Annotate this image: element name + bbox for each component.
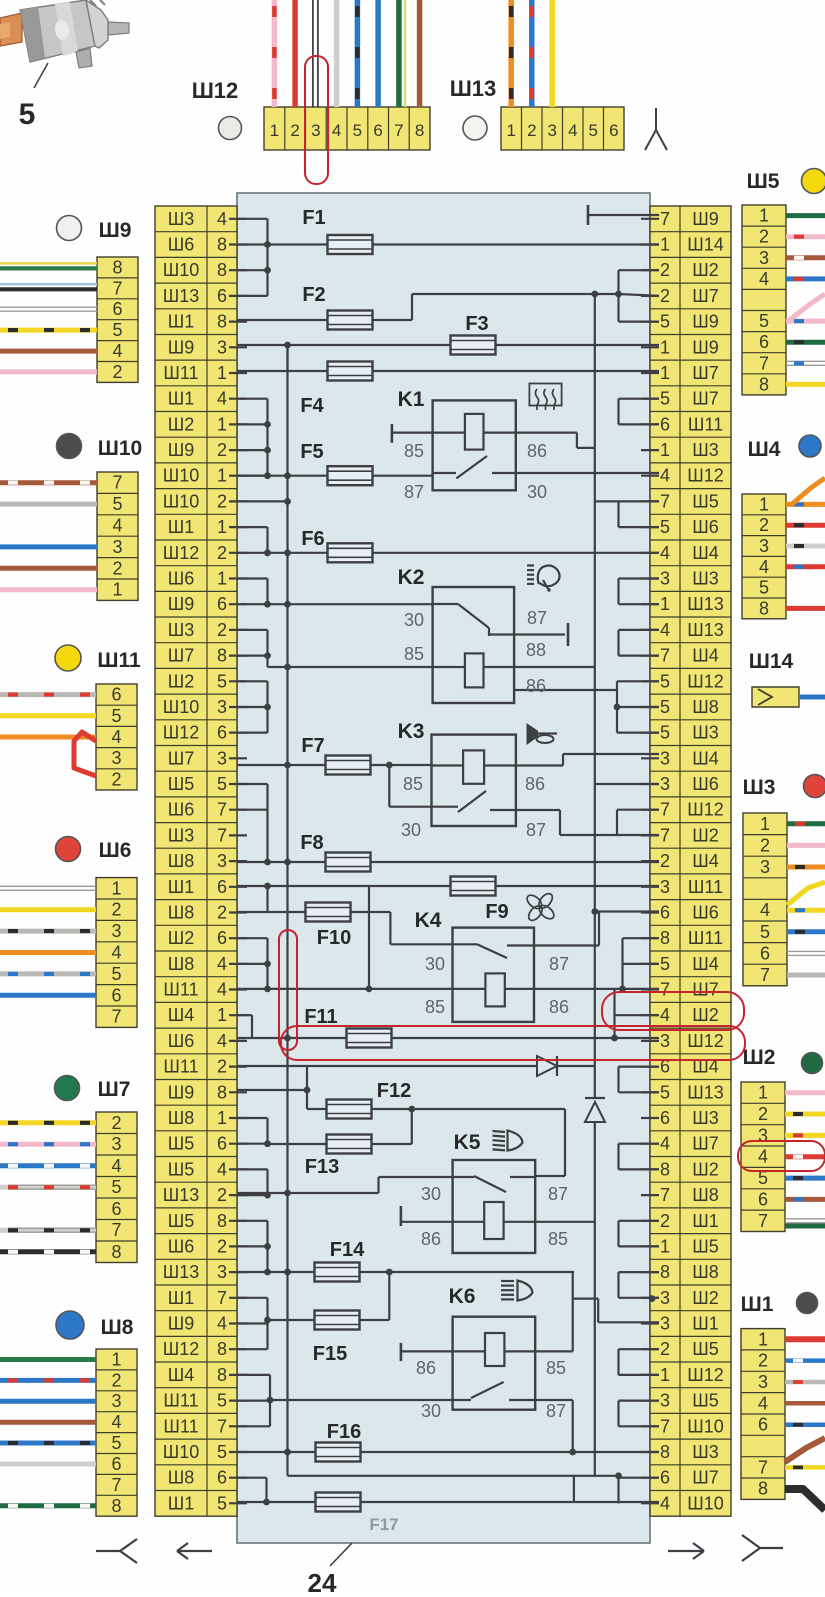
svg-text:Ш9: Ш9 xyxy=(168,440,195,460)
node: right rows 15-16 bracket xyxy=(619,579,660,605)
svg-text:6: 6 xyxy=(660,1468,670,1488)
wire Ш12 pin 3 (double) xyxy=(313,0,318,107)
node: right rows 19-21 bracket xyxy=(614,681,659,732)
svg-text:Ш6: Ш6 xyxy=(168,800,195,820)
node: rows 36-37 bracket feeding F13 xyxy=(237,1118,271,1147)
svg-text:Ш5: Ш5 xyxy=(692,1339,719,1359)
svg-text:7: 7 xyxy=(112,473,122,493)
svg-text:85: 85 xyxy=(403,774,423,794)
svg-text:Ш4: Ш4 xyxy=(168,1005,195,1025)
wire Ш5 pin 1 xyxy=(786,213,825,218)
svg-text:2: 2 xyxy=(660,260,670,280)
block pin ticks left edge xyxy=(229,219,247,1504)
svg-text:Ш8: Ш8 xyxy=(101,1316,134,1339)
wire Ш9 pin 5 xyxy=(0,328,97,333)
svg-text:F8: F8 xyxy=(300,832,323,854)
svg-text:3: 3 xyxy=(311,121,320,140)
svg-text:Ш6: Ш6 xyxy=(168,1031,195,1051)
wire: right row 23 line xyxy=(595,783,659,785)
svg-text:85: 85 xyxy=(548,1229,568,1249)
fuse F1 xyxy=(268,207,660,254)
svg-text:7: 7 xyxy=(660,1416,670,1436)
wire Ш5 pin 2 xyxy=(786,234,825,239)
wire Ш8 pin 4 xyxy=(0,1420,96,1425)
svg-text:30: 30 xyxy=(425,954,445,974)
svg-text:F9: F9 xyxy=(485,901,508,923)
svg-text:85: 85 xyxy=(404,644,424,664)
svg-text:Ш5: Ш5 xyxy=(168,1134,195,1154)
fuse F11 xyxy=(237,1006,659,1048)
svg-text:Ш14: Ш14 xyxy=(749,650,794,673)
wire Ш12 pin 8 xyxy=(417,0,423,107)
svg-text:Ш8: Ш8 xyxy=(168,903,195,923)
svg-text:Ш11: Ш11 xyxy=(688,877,723,897)
wire Ш7 pin 7 xyxy=(0,1228,96,1232)
connector Ш9 pin table xyxy=(97,257,138,382)
svg-text:K2: K2 xyxy=(398,566,425,589)
svg-text:1: 1 xyxy=(758,1329,768,1349)
svg-text:4: 4 xyxy=(111,727,121,747)
svg-text:3: 3 xyxy=(660,1314,670,1334)
svg-text:3: 3 xyxy=(111,1391,121,1411)
svg-text:4: 4 xyxy=(660,543,670,563)
svg-text:F11: F11 xyxy=(304,1006,337,1028)
svg-text:F6: F6 xyxy=(301,528,324,550)
svg-text:6: 6 xyxy=(111,985,121,1005)
svg-text:Ш13: Ш13 xyxy=(450,76,497,101)
svg-text:Ш10: Ш10 xyxy=(163,697,200,717)
svg-text:5: 5 xyxy=(660,1082,670,1102)
svg-text:F17: F17 xyxy=(369,1515,398,1534)
svg-text:1: 1 xyxy=(506,121,515,140)
svg-text:Ш12: Ш12 xyxy=(163,723,200,743)
svg-text:Ш6: Ш6 xyxy=(168,1236,195,1256)
svg-text:1: 1 xyxy=(270,121,279,140)
wire Ш7 pin 4 xyxy=(0,1163,96,1168)
wire Ш3 pin 5 xyxy=(787,929,825,934)
wire Ш5 pin 3 xyxy=(786,255,825,260)
wire Ш6 pin 2 xyxy=(0,907,96,912)
svg-text:Ш12: Ш12 xyxy=(687,466,724,486)
svg-text:Ш3: Ш3 xyxy=(692,1442,719,1462)
svg-text:Ш10: Ш10 xyxy=(163,260,200,280)
svg-text:5: 5 xyxy=(111,1433,121,1453)
fuse F17 xyxy=(237,1476,659,1534)
svg-text:2: 2 xyxy=(290,121,299,140)
red highlight: Ш12 pin 3 xyxy=(305,56,328,184)
svg-text:7: 7 xyxy=(660,209,670,229)
svg-text:4: 4 xyxy=(660,1005,670,1025)
svg-text:Ш7: Ш7 xyxy=(98,1078,131,1101)
fuse F13 xyxy=(268,1109,412,1178)
node: rows 38-39 bracket feeding K5-30 xyxy=(237,1169,288,1198)
svg-text:Ш3: Ш3 xyxy=(692,440,719,460)
svg-text:6: 6 xyxy=(760,943,770,963)
left pin table of block xyxy=(155,206,237,1516)
svg-text:F16: F16 xyxy=(327,1421,361,1443)
svg-text:3: 3 xyxy=(217,748,227,768)
svg-text:87: 87 xyxy=(404,482,424,502)
fork symbol bottom right xyxy=(742,1535,783,1561)
svg-text:K6: K6 xyxy=(449,1285,476,1308)
svg-text:Ш1: Ш1 xyxy=(168,1288,195,1308)
fuse F4 xyxy=(237,345,659,417)
svg-text:F12: F12 xyxy=(377,1080,411,1102)
fuse F10 xyxy=(237,886,390,949)
svg-text:Ш9: Ш9 xyxy=(168,1082,195,1102)
node: row 13 bracket feeding F6 xyxy=(237,527,271,556)
svg-text:4: 4 xyxy=(568,121,577,140)
wire Ш13 pin 2 xyxy=(529,0,535,107)
svg-text:24: 24 xyxy=(308,1568,337,1592)
svg-text:8: 8 xyxy=(759,598,769,618)
wire Ш2 green bottom xyxy=(785,1224,825,1229)
svg-text:Ш3: Ш3 xyxy=(692,1108,719,1128)
svg-text:Ш4: Ш4 xyxy=(748,438,781,461)
svg-text:3: 3 xyxy=(111,748,121,768)
svg-text:6: 6 xyxy=(660,1108,670,1128)
svg-text:87: 87 xyxy=(527,608,547,628)
svg-text:2: 2 xyxy=(112,362,122,382)
svg-text:F7: F7 xyxy=(301,735,324,757)
svg-text:3: 3 xyxy=(759,536,769,556)
wire: row 12 stub to bus xyxy=(237,498,291,505)
svg-text:4: 4 xyxy=(111,943,121,963)
svg-text:8: 8 xyxy=(217,1365,227,1385)
wire Ш8 pin 3 xyxy=(0,1399,96,1404)
wire Ш11 pin 6 xyxy=(0,692,96,697)
svg-text:8: 8 xyxy=(759,374,769,394)
node: right rows 50-51 bracket xyxy=(619,1478,660,1504)
svg-text:3: 3 xyxy=(758,1372,768,1392)
svg-text:Ш10: Ш10 xyxy=(687,1416,724,1436)
svg-text:4: 4 xyxy=(759,269,769,289)
svg-text:K5: K5 xyxy=(454,1131,481,1154)
wire Ш4 orange diagonal xyxy=(792,478,825,504)
svg-text:2: 2 xyxy=(759,227,769,247)
node: row 32 bracket to F11 xyxy=(237,1015,252,1038)
svg-text:86: 86 xyxy=(421,1229,441,1249)
svg-text:2: 2 xyxy=(660,286,670,306)
svg-text:K3: K3 xyxy=(398,720,425,743)
svg-text:Ш3: Ш3 xyxy=(168,209,195,229)
svg-text:3: 3 xyxy=(217,1262,227,1282)
wire Ш4 pin 1 xyxy=(786,502,825,507)
wire Ш3 pin 3 xyxy=(787,865,825,870)
wire Ш5 pin 6 xyxy=(786,340,825,345)
connector Ш9 label and socket xyxy=(57,216,132,243)
svg-text:6: 6 xyxy=(112,299,122,319)
svg-text:3: 3 xyxy=(217,697,227,717)
svg-text:4: 4 xyxy=(217,1159,227,1179)
svg-text:F4: F4 xyxy=(300,395,324,417)
svg-text:Ш4: Ш4 xyxy=(692,543,719,563)
svg-text:4: 4 xyxy=(660,620,670,640)
svg-text:2: 2 xyxy=(111,1113,121,1133)
wire Ш2 pin 1 xyxy=(785,1090,825,1095)
svg-text:2: 2 xyxy=(217,491,227,511)
svg-text:Ш8: Ш8 xyxy=(168,851,195,871)
node: rows 43-44 bracket left xyxy=(237,1298,271,1349)
node: rows 1-4 bracket feeding F1 xyxy=(237,219,271,296)
fuse F6 xyxy=(237,528,659,562)
wire Ш5 pin 7 xyxy=(786,361,825,365)
svg-text:Ш13: Ш13 xyxy=(163,1185,200,1205)
svg-text:6: 6 xyxy=(660,903,670,923)
svg-text:8: 8 xyxy=(660,928,670,948)
svg-text:7: 7 xyxy=(660,825,670,845)
connector Ш14 label xyxy=(749,650,794,673)
svg-text:2: 2 xyxy=(758,1351,768,1371)
svg-text:5: 5 xyxy=(588,121,597,140)
svg-text:4: 4 xyxy=(112,341,122,361)
svg-text:1: 1 xyxy=(660,440,670,460)
svg-text:Ш1: Ш1 xyxy=(168,312,195,332)
connector Ш8 label and socket xyxy=(56,1311,134,1339)
svg-text:4: 4 xyxy=(660,1493,670,1513)
svg-text:7: 7 xyxy=(660,980,670,1000)
svg-text:Ш13: Ш13 xyxy=(163,1262,200,1282)
connector Ш4 label and socket xyxy=(748,435,821,461)
svg-text:5: 5 xyxy=(19,98,36,131)
wire Ш1 pin 3 xyxy=(785,1380,825,1385)
svg-text:2: 2 xyxy=(217,1236,227,1256)
wire Ш1 brown diagonal xyxy=(785,1438,825,1462)
svg-text:Ш1: Ш1 xyxy=(741,1293,774,1316)
wire Ш4 pin 4 xyxy=(786,564,825,569)
svg-text:Ш5: Ш5 xyxy=(168,1211,195,1231)
svg-text:3: 3 xyxy=(660,569,670,589)
red highlight: F11 row to 3-Ш12 xyxy=(281,1026,745,1060)
svg-text:6: 6 xyxy=(217,286,227,306)
svg-text:7: 7 xyxy=(660,646,670,666)
svg-text:F1: F1 xyxy=(302,207,325,229)
connector Ш14 arrow terminal xyxy=(752,687,799,707)
svg-text:Ш9: Ш9 xyxy=(692,337,719,357)
svg-text:2: 2 xyxy=(217,1057,227,1077)
svg-text:6: 6 xyxy=(759,332,769,352)
wire Ш12 pin 2 xyxy=(292,0,298,107)
svg-text:Ш11: Ш11 xyxy=(688,928,723,948)
wire Ш1 black output xyxy=(785,1489,825,1510)
svg-text:1: 1 xyxy=(217,569,227,589)
svg-text:5: 5 xyxy=(759,578,769,598)
connector Ш1 label and socket xyxy=(741,1293,818,1317)
svg-text:2: 2 xyxy=(111,769,121,789)
svg-text:Ш12: Ш12 xyxy=(163,543,200,563)
svg-text:3: 3 xyxy=(660,1288,670,1308)
svg-text:5: 5 xyxy=(217,1442,227,1462)
svg-text:5: 5 xyxy=(660,312,670,332)
svg-text:2: 2 xyxy=(217,440,227,460)
svg-text:4: 4 xyxy=(660,1134,670,1154)
svg-text:1: 1 xyxy=(111,878,121,898)
svg-text:1: 1 xyxy=(760,814,770,834)
svg-text:7: 7 xyxy=(660,800,670,820)
svg-text:8: 8 xyxy=(660,1159,670,1179)
wire Ш1 pin 4 xyxy=(785,1401,825,1406)
svg-text:1: 1 xyxy=(217,363,227,383)
wire Ш3 pin 6 xyxy=(787,951,825,955)
svg-text:8: 8 xyxy=(217,646,227,666)
node: right rows 37-38 bracket xyxy=(619,1144,660,1170)
svg-text:Ш11: Ш11 xyxy=(163,363,198,383)
wire Ш9 pin 4 xyxy=(0,349,97,354)
svg-text:85: 85 xyxy=(425,997,445,1017)
svg-text:5: 5 xyxy=(112,320,122,340)
svg-text:Ш7: Ш7 xyxy=(692,389,719,409)
connector Ш2 pin table xyxy=(741,1082,785,1232)
svg-text:Ш7: Ш7 xyxy=(692,286,719,306)
svg-text:Ш14: Ш14 xyxy=(687,235,724,255)
svg-text:3: 3 xyxy=(111,921,121,941)
connector Ш1 pin table xyxy=(741,1329,785,1500)
connector Ш8 pin table xyxy=(96,1349,137,1516)
svg-text:Ш8: Ш8 xyxy=(168,1108,195,1128)
svg-text:8: 8 xyxy=(660,1262,670,1282)
svg-text:Ш11: Ш11 xyxy=(163,1391,198,1411)
connector Ш11 label and socket xyxy=(55,645,141,672)
svg-text:Ш2: Ш2 xyxy=(168,928,195,948)
svg-text:5: 5 xyxy=(217,774,227,794)
svg-text:8: 8 xyxy=(217,312,227,332)
fuse F16 xyxy=(237,1421,659,1462)
relay K1 xyxy=(392,388,659,502)
svg-text:Ш2: Ш2 xyxy=(692,1005,719,1025)
svg-text:6: 6 xyxy=(217,723,227,743)
node: rows 23-24 bracket left to F8 xyxy=(237,784,271,865)
svg-text:2: 2 xyxy=(111,900,121,920)
svg-text:Ш13: Ш13 xyxy=(687,594,724,614)
wire Ш13 pin 3 xyxy=(549,0,555,107)
wire Ш7 pin 8 xyxy=(0,1249,96,1254)
right pin table of block xyxy=(650,206,731,1516)
wire Ш2 pin 6 xyxy=(785,1197,825,1202)
wire Ш10 pin 5 xyxy=(0,502,97,507)
svg-text:30: 30 xyxy=(527,482,547,502)
connector Ш12 pin row xyxy=(264,107,430,150)
svg-text:1: 1 xyxy=(660,1236,670,1256)
svg-text:86: 86 xyxy=(416,1358,436,1378)
arrow left bottom xyxy=(177,1543,212,1559)
svg-text:5: 5 xyxy=(111,1177,121,1197)
svg-text:Ш12: Ш12 xyxy=(687,1031,724,1051)
svg-text:4: 4 xyxy=(112,516,122,536)
heater icon at K1 xyxy=(529,384,561,411)
connector Ш10 pin table xyxy=(97,472,138,600)
svg-text:3: 3 xyxy=(111,1134,121,1154)
svg-text:Ш10: Ш10 xyxy=(163,466,200,486)
svg-text:Ш4: Ш4 xyxy=(692,851,719,871)
svg-text:1: 1 xyxy=(217,517,227,537)
svg-text:Ш10: Ш10 xyxy=(687,1493,724,1513)
svg-text:Ш2: Ш2 xyxy=(692,1159,719,1179)
svg-text:Ш7: Ш7 xyxy=(168,748,195,768)
svg-text:2: 2 xyxy=(758,1104,768,1124)
wire Ш2 pin 7 xyxy=(785,1219,825,1223)
fuse F3 xyxy=(237,313,659,355)
wire Ш2 pin 4 xyxy=(785,1154,825,1159)
svg-text:Ш9: Ш9 xyxy=(168,1314,195,1334)
wire Ш5 pin 4 xyxy=(786,276,825,281)
connector Ш12 label and socket xyxy=(192,78,242,140)
svg-text:4: 4 xyxy=(111,1412,121,1432)
svg-text:Ш2: Ш2 xyxy=(168,414,195,434)
svg-text:7: 7 xyxy=(111,1220,121,1240)
wire Ш11 pin 5 xyxy=(0,713,96,718)
svg-text:Ш4: Ш4 xyxy=(692,954,719,974)
svg-text:Ш13: Ш13 xyxy=(687,1082,724,1102)
svg-text:3: 3 xyxy=(660,877,670,897)
svg-text:Ш9: Ш9 xyxy=(168,594,195,614)
svg-text:4: 4 xyxy=(217,1314,227,1334)
svg-text:Ш10: Ш10 xyxy=(98,437,142,460)
svg-text:85: 85 xyxy=(546,1358,566,1378)
svg-text:Ш2: Ш2 xyxy=(743,1046,776,1069)
svg-text:7: 7 xyxy=(217,825,227,845)
svg-text:2: 2 xyxy=(217,903,227,923)
svg-text:Ш1: Ш1 xyxy=(168,877,195,897)
svg-text:7: 7 xyxy=(660,1185,670,1205)
svg-text:Ш12: Ш12 xyxy=(192,78,239,103)
wire Ш4 pin 3 xyxy=(786,544,825,549)
svg-text:3: 3 xyxy=(112,537,122,557)
wire Ш2 pin 2 xyxy=(785,1112,825,1117)
svg-text:Ш3: Ш3 xyxy=(692,723,719,743)
svg-text:5: 5 xyxy=(660,697,670,717)
relay K4 xyxy=(237,885,659,1021)
svg-text:1: 1 xyxy=(759,206,769,226)
svg-text:Ш6: Ш6 xyxy=(692,517,719,537)
svg-text:Ш9: Ш9 xyxy=(168,337,195,357)
node: right rows 8-9 bracket xyxy=(619,399,660,425)
svg-text:6: 6 xyxy=(373,121,382,140)
starter motor (item 5) xyxy=(0,0,129,88)
svg-text:Ш11: Ш11 xyxy=(688,414,723,434)
svg-text:F2: F2 xyxy=(302,284,325,306)
svg-text:Ш5: Ш5 xyxy=(168,1159,195,1179)
fuse F5 xyxy=(237,441,432,485)
svg-text:2: 2 xyxy=(660,1211,670,1231)
svg-text:5: 5 xyxy=(660,723,670,743)
antenna symbol right of Ш13 xyxy=(645,108,667,150)
diode VD1 xyxy=(537,1056,557,1076)
svg-text:Ш8: Ш8 xyxy=(168,954,195,974)
connector Ш3 pin table xyxy=(743,813,787,986)
node: right rows 47-48 bracket xyxy=(619,1401,660,1427)
svg-text:1: 1 xyxy=(111,1350,121,1370)
svg-text:Ш1: Ш1 xyxy=(168,517,195,537)
svg-text:3: 3 xyxy=(759,248,769,268)
connector Ш10 label and socket xyxy=(57,434,143,461)
svg-text:1: 1 xyxy=(217,414,227,434)
svg-text:Ш2: Ш2 xyxy=(692,825,719,845)
wire Ш3 yellow diagonal xyxy=(787,882,825,905)
svg-text:3: 3 xyxy=(760,857,770,877)
svg-text:5: 5 xyxy=(660,671,670,691)
svg-text:7: 7 xyxy=(111,1007,121,1027)
svg-text:5: 5 xyxy=(660,954,670,974)
svg-text:Ш10: Ш10 xyxy=(163,1442,200,1462)
wire Ш11 pin 4 xyxy=(0,735,96,740)
svg-text:Ш5: Ш5 xyxy=(168,774,195,794)
connector Ш2 label and socket xyxy=(743,1046,823,1074)
wire Ш8 pin 6 xyxy=(0,1462,96,1467)
node: right rows 12-13 bracket xyxy=(595,501,659,527)
svg-text:5: 5 xyxy=(217,1493,227,1513)
svg-text:Ш9: Ш9 xyxy=(692,312,719,332)
wire Ш7 pin 2 xyxy=(0,1120,96,1125)
